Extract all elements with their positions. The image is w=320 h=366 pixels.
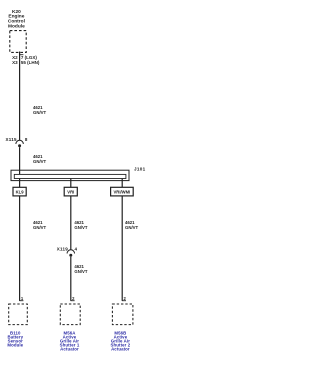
- harness routing box KL9: [13, 187, 26, 196]
- pin foot at ECM connector: [19, 54, 23, 56]
- wire label 4621 GN/VT (segment above J101): [33, 154, 47, 164]
- svg-text:GN/VT: GN/VT: [74, 225, 88, 230]
- harness routing box VRI: [64, 187, 77, 196]
- svg-text:Actuator: Actuator: [60, 346, 79, 351]
- svg-text:KL9: KL9: [16, 189, 25, 194]
- wire from X119 down to M56A: [70, 257, 72, 301]
- svg-text:VRI/WMI: VRI/WMI: [114, 189, 131, 194]
- svg-text:VRI: VRI: [67, 189, 74, 194]
- component name M56A Active Grille Air Shutter 1 Actuator: [60, 330, 80, 351]
- component M56A dashed box: [60, 304, 80, 325]
- svg-text:Actuator: Actuator: [111, 347, 130, 352]
- splice pack J101 internal bus bar: [14, 174, 126, 178]
- component M56B dashed box: [112, 304, 133, 325]
- svg-text:GN/VT: GN/VT: [125, 225, 139, 230]
- svg-text:GN/VT: GN/VT: [74, 269, 88, 274]
- wire drop 1: J101 to B110, 4621 GN/VT: [19, 178, 21, 300]
- svg-text:GN/VT: GN/VT: [33, 225, 47, 230]
- wire label 4621 GN/VT (upper segment): [33, 105, 47, 115]
- inline connector X115 symbol (arc + terminal dot): [16, 140, 23, 147]
- svg-text:Module: Module: [8, 23, 25, 29]
- pin foot at M56A: [71, 300, 75, 302]
- svg-text:GN/VT: GN/VT: [33, 159, 47, 164]
- component name M56B Active Grille Air Shutter 2 Actuator: [111, 331, 131, 352]
- svg-text:J101: J101: [134, 166, 146, 171]
- wire 4621 GN/VT from ECM pin down to X115: [19, 51, 21, 140]
- wire label 4621 GN/VT (drop 3): [125, 220, 139, 230]
- svg-text:Module: Module: [7, 342, 23, 347]
- pin foot at M56B: [122, 300, 126, 302]
- wire drop 3: J101 to M56B, 4621 GN/VT: [121, 179, 123, 301]
- wire label 4621 GN/VT (drop 1): [33, 220, 47, 230]
- module K20 Engine Control Module name label: [8, 9, 25, 29]
- wire from X115 down to splice pack J101: [19, 147, 21, 174]
- wire label 4621 GN/VT (drop 2): [74, 220, 88, 230]
- harness routing box VRI/WMI: [111, 187, 134, 196]
- wire drop 2: J101 to M56A, 4621 GN/VT (upper part to X119): [70, 179, 72, 250]
- inline connector X119 symbol (arc + terminal dot): [67, 250, 74, 257]
- svg-text:GN/VT: GN/VT: [33, 110, 47, 115]
- component name B110 Battery Sensor Module: [7, 330, 23, 347]
- ECM K20 component dashed box: [10, 31, 26, 53]
- wire label 4621 GN/VT (below X119): [74, 264, 88, 274]
- component B110 dashed box: [9, 304, 28, 325]
- svg-text:X119: X119: [57, 247, 69, 252]
- pin foot at B110: [19, 300, 23, 302]
- splice pack J101 outer box: [11, 170, 129, 180]
- svg-text:55 (LHN): 55 (LHN): [21, 60, 40, 65]
- svg-text:X3: X3: [12, 60, 18, 65]
- svg-text:X115: X115: [6, 137, 18, 142]
